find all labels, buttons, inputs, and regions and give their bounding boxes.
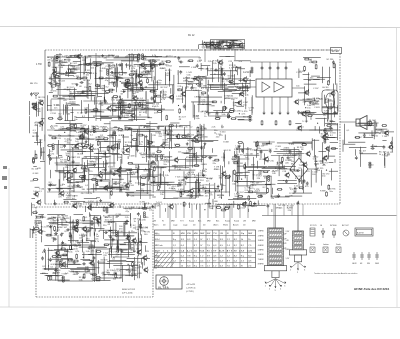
svg-text:Gl 251: Gl 251	[50, 91, 57, 93]
svg-text:Tr 955: Tr 955	[73, 95, 80, 98]
svg-text:2: 2	[297, 272, 298, 274]
svg-text:R 859: R 859	[300, 71, 306, 73]
svg-text:G 635: G 635	[169, 188, 176, 190]
svg-text:Tr 231: Tr 231	[107, 127, 114, 130]
svg-text:6 HFM: 6 HFM	[258, 254, 264, 256]
svg-text:Kanal: Kanal	[189, 220, 195, 222]
svg-text:Lotöse: Lotöse	[323, 243, 329, 246]
svg-text:Tr 531: Tr 531	[302, 120, 309, 123]
svg-text:BF 224: BF 224	[61, 266, 69, 268]
svg-text:D 601: D 601	[91, 278, 97, 280]
svg-text:GC 116: GC 116	[31, 169, 39, 171]
svg-text:KT 315: KT 315	[73, 157, 81, 159]
svg-text:BC 107: BC 107	[139, 153, 147, 155]
svg-text:2: 2	[269, 289, 270, 291]
svg-text:Steck.: Steck.	[310, 243, 316, 246]
svg-text:G 943: G 943	[33, 173, 40, 175]
svg-text:G 858: G 858	[194, 116, 201, 118]
svg-text:SY 170: SY 170	[200, 188, 208, 190]
svg-text:7 HFM: 7 HFM	[258, 259, 264, 261]
svg-text:MW: MW	[252, 220, 256, 222]
svg-text:D 842: D 842	[125, 170, 131, 172]
svg-text:D 264: D 264	[110, 189, 116, 191]
svg-text:A 4TW: A 4TW	[357, 232, 364, 235]
svg-text:C 205: C 205	[143, 227, 149, 229]
svg-text:G 487: G 487	[155, 133, 162, 135]
svg-text:SC 236: SC 236	[151, 166, 159, 168]
svg-text:Ubers: Ubers	[213, 224, 218, 226]
svg-text:GD 170: GD 170	[364, 125, 372, 127]
svg-text:SY 170: SY 170	[83, 169, 91, 171]
svg-text:SC 236: SC 236	[234, 111, 242, 113]
svg-text:KT 315: KT 315	[135, 245, 143, 247]
svg-text:Gl 114: Gl 114	[130, 173, 137, 175]
svg-text:+Vf 5x125: +Vf 5x125	[186, 284, 196, 286]
svg-text:TVI: TVI	[213, 233, 217, 235]
svg-text:G 331: G 331	[237, 163, 244, 165]
svg-text:T 711: T 711	[196, 97, 202, 99]
svg-text:1 TW: 1 TW	[36, 63, 42, 66]
svg-text:LW: LW	[243, 220, 246, 222]
svg-text:D 197: D 197	[174, 144, 180, 146]
svg-text:L 680: L 680	[213, 201, 219, 203]
svg-text:GC 116: GC 116	[83, 80, 91, 82]
svg-text:4 HFM: 4 HFM	[258, 245, 264, 247]
svg-text:Tastatur an der unteren aus de: Tastatur an der unteren aus der Ansicht …	[314, 272, 357, 275]
svg-text:Gl 204: Gl 204	[77, 153, 84, 155]
svg-text:BC 107: BC 107	[138, 104, 146, 106]
svg-text:SC 236: SC 236	[139, 219, 147, 221]
svg-text:GD 170: GD 170	[72, 67, 80, 69]
svg-text:GD 170: GD 170	[117, 116, 125, 118]
svg-text:1 HFM: 1 HFM	[258, 231, 264, 233]
svg-text:L 180: L 180	[370, 135, 376, 137]
svg-text:C 768: C 768	[57, 67, 63, 69]
svg-text:RGB 107/112: RGB 107/112	[122, 289, 136, 291]
svg-text:Tr 197: Tr 197	[77, 112, 84, 115]
svg-text:HF/NF-Teile des KR 2204: HF/NF-Teile des KR 2204	[354, 287, 389, 291]
svg-text:T 526: T 526	[175, 177, 181, 179]
svg-text:GD 170: GD 170	[206, 69, 214, 71]
svg-text:Gl 899: Gl 899	[371, 146, 378, 148]
svg-text:R 889: R 889	[320, 191, 326, 193]
svg-text:BF 224: BF 224	[77, 182, 85, 184]
svg-text:BC 107: BC 107	[355, 137, 363, 139]
svg-text:Gl 678: Gl 678	[126, 111, 133, 113]
svg-text:RE 170: RE 170	[30, 83, 38, 85]
svg-text:KT 315: KT 315	[200, 175, 208, 177]
svg-text:R 861: R 861	[150, 145, 156, 147]
svg-text:R 696: R 696	[260, 159, 266, 161]
svg-text:C 158: C 158	[50, 113, 56, 115]
svg-text:MW: MW	[171, 220, 175, 222]
svg-text:R 529: R 529	[219, 68, 225, 70]
svg-text:L 1-4: L 1-4	[155, 239, 159, 241]
svg-text:BF 224: BF 224	[32, 136, 40, 138]
svg-text:ZF-Trafo: ZF-Trafo	[155, 244, 162, 247]
svg-text:T 540: T 540	[303, 112, 309, 114]
svg-text:Draht: Draht	[336, 243, 341, 246]
svg-text:3 HFM: 3 HFM	[258, 240, 264, 242]
svg-text:TV I: TV I	[180, 220, 184, 222]
svg-text:T 898: T 898	[209, 105, 215, 107]
svg-text:GU 50: GU 50	[322, 87, 329, 89]
svg-text:BF 224: BF 224	[138, 208, 146, 210]
svg-text:Tr 646: Tr 646	[76, 131, 83, 134]
svg-text:C 910: C 910	[214, 169, 220, 171]
svg-text:GDR: GDR	[352, 263, 357, 265]
svg-text:D 751: D 751	[321, 130, 327, 132]
svg-text:Ubers: Ubers	[153, 224, 158, 226]
svg-text:G 468: G 468	[129, 155, 136, 157]
svg-text:Gl 805: Gl 805	[201, 164, 208, 166]
svg-text:SY 170: SY 170	[54, 138, 62, 140]
svg-text:D 603: D 603	[118, 131, 124, 133]
svg-text:Gl 917: Gl 917	[72, 84, 79, 86]
svg-text:L 194: L 194	[199, 94, 205, 96]
svg-text:4: 4	[280, 289, 281, 291]
svg-text:STEREO DEKODER: STEREO DEKODER	[283, 155, 302, 157]
svg-text:BF 224: BF 224	[58, 80, 66, 82]
svg-text:Tr 201: Tr 201	[68, 270, 75, 273]
svg-text:BC 107: BC 107	[243, 117, 251, 119]
svg-text:SZ 600: SZ 600	[330, 225, 337, 227]
svg-text:3: 3	[304, 270, 305, 272]
svg-text:1: 1	[265, 285, 266, 287]
svg-text:SC 236: SC 236	[326, 59, 334, 61]
svg-text:KU 12: KU 12	[188, 35, 195, 37]
svg-text:SY 170: SY 170	[129, 66, 137, 68]
svg-text:BC 107: BC 107	[161, 87, 169, 89]
svg-text:GD 170: GD 170	[224, 150, 232, 152]
svg-text:T 511: T 511	[108, 167, 114, 169]
svg-text:C 481: C 481	[314, 107, 320, 109]
svg-text:Kreis: Kreis	[155, 254, 159, 257]
svg-text:Osz.: Osz.	[155, 251, 159, 253]
svg-text:Tr 789: Tr 789	[73, 75, 80, 78]
svg-text:C 224: C 224	[193, 139, 199, 141]
svg-text:GC 116: GC 116	[246, 154, 254, 156]
svg-text:Gl 519: Gl 519	[69, 102, 76, 104]
svg-text:R 253: R 253	[117, 277, 123, 279]
svg-text:C 124: C 124	[32, 158, 38, 160]
svg-text:A 211 D: A 211 D	[243, 71, 252, 74]
svg-text:C 360: C 360	[72, 148, 78, 150]
svg-text:L 398: L 398	[191, 67, 197, 69]
svg-text:Wickl: Wickl	[223, 224, 228, 226]
svg-text:Gl 916: Gl 916	[143, 171, 150, 173]
svg-text:ZF-Trafo: ZF-Trafo	[155, 265, 162, 268]
svg-text:3: 3	[275, 290, 276, 292]
svg-text:BF 224: BF 224	[233, 67, 241, 69]
svg-text:BC 107: BC 107	[91, 63, 99, 65]
svg-text:GD 170: GD 170	[81, 193, 89, 195]
svg-text:Gl 456: Gl 456	[202, 137, 209, 139]
svg-text:L 654: L 654	[178, 189, 184, 191]
svg-text:Osz.: Osz.	[155, 260, 159, 262]
svg-text:SY 170: SY 170	[310, 225, 317, 227]
svg-text:BC 107: BC 107	[41, 227, 49, 229]
svg-text:8 HFM: 8 HFM	[258, 264, 264, 266]
svg-text:SF 215: SF 215	[267, 161, 275, 163]
svg-text:U L T R A: U L T R A	[158, 286, 169, 289]
svg-text:2 HFM: 2 HFM	[258, 235, 264, 237]
svg-text:G 468: G 468	[223, 142, 230, 144]
svg-text:Ansch: Ansch	[233, 223, 239, 226]
svg-text:BC 107: BC 107	[342, 225, 350, 227]
svg-text:SY 170: SY 170	[200, 112, 208, 114]
svg-text:Gl 457: Gl 457	[215, 117, 222, 119]
svg-text:T 140: T 140	[382, 136, 388, 138]
svg-text:BC 107: BC 107	[60, 227, 68, 229]
svg-text:1: 1	[290, 270, 291, 272]
svg-text:5 HFM: 5 HFM	[258, 250, 264, 252]
svg-text:C 170: C 170	[250, 149, 256, 151]
svg-text:BC 107: BC 107	[202, 104, 210, 106]
svg-text:BC 107: BC 107	[73, 222, 81, 224]
svg-text:Gl 551: Gl 551	[298, 127, 305, 129]
svg-text:Ber.: Ber.	[216, 220, 220, 222]
svg-text:Kanal: Kanal	[234, 220, 240, 222]
svg-text:D 472: D 472	[76, 244, 82, 246]
svg-text:SF 215: SF 215	[276, 207, 284, 209]
svg-text:C 207: C 207	[313, 88, 319, 90]
svg-text:(-2 TVK): (-2 TVK)	[186, 291, 194, 293]
svg-text:T 875: T 875	[289, 144, 295, 146]
svg-text:Gl 845: Gl 845	[197, 80, 204, 82]
svg-text:T 978: T 978	[207, 178, 213, 180]
svg-text:GD 170: GD 170	[100, 260, 108, 262]
svg-text:LW: LW	[153, 220, 156, 222]
svg-text:(LP 1-203): (LP 1-203)	[122, 293, 133, 295]
svg-text:SC 236: SC 236	[60, 162, 68, 164]
svg-text:BF 224: BF 224	[197, 180, 205, 182]
svg-text:G 891: G 891	[84, 138, 91, 140]
svg-text:BF224: BF224	[140, 74, 147, 76]
svg-text:Kreis: Kreis	[155, 232, 159, 235]
svg-text:G 473: G 473	[188, 195, 195, 197]
svg-text:5: 5	[284, 285, 285, 287]
svg-text:L 610: L 610	[240, 208, 246, 210]
svg-text:BC 107: BC 107	[95, 103, 103, 105]
svg-text:G 642: G 642	[89, 246, 96, 248]
svg-text:SC 236: SC 236	[87, 145, 95, 147]
svg-text:GD 170: GD 170	[150, 91, 158, 93]
svg-text:C 887: C 887	[150, 59, 156, 61]
svg-text:D 218: D 218	[70, 131, 76, 133]
svg-text:SF 215: SF 215	[165, 70, 173, 72]
svg-text:L-2TVK 4x: L-2TVK 4x	[186, 288, 195, 290]
svg-text:TVI: TVI	[234, 233, 238, 235]
svg-text:SF 215: SF 215	[105, 185, 113, 187]
svg-text:MW: MW	[207, 220, 211, 222]
